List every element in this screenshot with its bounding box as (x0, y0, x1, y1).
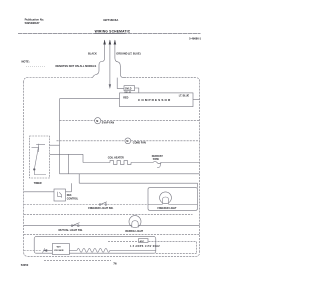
wire defrost control row (24, 191, 54, 193)
wire hot feed to compressor (60, 98, 120, 100)
svg-text:GROUND (LT. BLUE): GROUND (LT. BLUE) (116, 52, 140, 55)
timer switch arm (34, 144, 45, 170)
svg-text:FREEZER LIGHT: FREEZER LIGHT (158, 207, 178, 210)
wire freezer light row dashed (24, 204, 148, 206)
wire timer stub mid (50, 153, 83, 155)
coil heater zigzag resistor (110, 161, 131, 165)
cabinet outline right edge (199, 82, 201, 253)
wire long row y183 (79, 183, 197, 188)
svg-text:WIRING SCHEMATIC: WIRING SCHEMATIC (95, 30, 131, 34)
line cord plug arrow black (104, 40, 106, 45)
wire dashed stub left of plug (24, 250, 42, 252)
defrost thermostat curl (153, 161, 161, 167)
wire refrig lamp legs (130, 225, 141, 227)
defrost control switch symbol (57, 192, 61, 198)
wire overload drop from neutral (117, 78, 124, 89)
svg-text:GRT18C6A: GRT18C6A (103, 18, 119, 22)
timer internal wire (34, 170, 46, 174)
svg-text:M: M (96, 120, 98, 123)
svg-text:OVLD: OVLD (125, 89, 132, 91)
hot bus vertical (59, 99, 61, 174)
refrig lamp bulb (129, 216, 141, 228)
svg-text:M: M (126, 140, 128, 143)
wire cond fan row (57, 140, 200, 142)
wire timer stub to bus (50, 144, 60, 146)
cond fan motor circle (125, 138, 131, 144)
svg-text:REFRIG LIGHT: REFRIG LIGHT (125, 230, 143, 233)
svg-text:EVAP FAN: EVAP FAN (102, 122, 114, 125)
wire overload to box edge (135, 88, 139, 93)
svg-text:BLACK: BLACK (88, 52, 97, 55)
wire defrost control out (66, 191, 72, 193)
wire ground down (109, 45, 111, 85)
svg-text:NOTE:: NOTE: (22, 59, 30, 63)
svg-text:COND FAN: COND FAN (133, 142, 146, 145)
cabinet outline left edge (23, 82, 25, 253)
header rule (18, 33, 201, 35)
timer common dot (33, 168, 35, 170)
svg-text:COMPRESSOR: COMPRESSOR (138, 98, 171, 102)
wire through freezer lamp (148, 204, 197, 206)
refrig door switch (72, 223, 79, 226)
overload box (124, 86, 135, 91)
freezer lamp bulb (160, 192, 172, 204)
plug arrow symbol (43, 249, 47, 252)
svg-text:··········: ·········· (26, 65, 46, 68)
svg-text:DEF.: DEF. (67, 195, 72, 197)
wire dashed bottom arrow row (44, 260, 111, 262)
svg-text:DENOTES NOT ON ALL MODELS: DENOTES NOT ON ALL MODELS (56, 64, 97, 68)
svg-text:RED: RED (123, 97, 128, 100)
ice maker enclosure (34, 237, 156, 254)
wire defrost heater row left (83, 162, 110, 164)
compressor box (120, 93, 194, 107)
water valve box (52, 244, 69, 255)
cabinet outline top-left segment (24, 78, 93, 82)
wire evap fan row (60, 120, 200, 122)
wire black cord down with S-curve to cabinet top (93, 45, 105, 78)
drain heater coil (69, 248, 155, 252)
svg-text:1.5 AMPS 115V 60HZ: 1.5 AMPS 115V 60HZ (130, 245, 160, 248)
svg-text:5-49686-1: 5-49686-1 (189, 36, 201, 40)
svg-text:ADC: ADC (140, 240, 145, 243)
wire compressor to right bus (193, 99, 200, 101)
svg-text:76: 76 (113, 262, 117, 266)
svg-text:W/V: W/V (57, 247, 62, 249)
wire plug to water valve (47, 250, 52, 252)
freezer light switch (100, 202, 107, 205)
svg-text:MUTUAL LIGHT SW.: MUTUAL LIGHT SW. (59, 229, 83, 232)
defrost control box (54, 189, 66, 201)
wire defrost branch riser (71, 183, 73, 192)
wire icemaker feed row dashed (24, 233, 200, 235)
line cord plug arrow ground (109, 40, 111, 45)
wire drop to lower row (68, 154, 70, 174)
ground arrow down (109, 84, 111, 89)
freezer light enclosure (148, 188, 197, 211)
wire heater row right (161, 162, 200, 164)
wire neutral cord S-curve right (115, 45, 126, 78)
small marker box (139, 239, 149, 243)
wire drop x79 (78, 174, 80, 183)
wire mid dashed row (24, 213, 193, 215)
defrost timer box (30, 136, 50, 178)
line cord plug arrow neutral (114, 40, 116, 45)
svg-text:CONTROL: CONTROL (67, 199, 79, 201)
wire adc row inside enclosure (108, 240, 139, 242)
svg-text:TIMER: TIMER (34, 182, 42, 185)
svg-text:500W: 500W (153, 159, 160, 161)
wire long row y174 (60, 173, 200, 175)
icemaker annex dashed box (149, 242, 197, 254)
wire drop to heater row (82, 154, 84, 162)
cabinet outline bottom edge (24, 252, 200, 256)
svg-text:COIL HEATER: COIL HEATER (108, 157, 124, 160)
wire heater row mid (131, 162, 153, 164)
svg-text:5995396187: 5995396187 (25, 21, 40, 25)
svg-text:FREEZER LIGHT SW.: FREEZER LIGHT SW. (88, 207, 113, 210)
svg-text:53050: 53050 (21, 263, 29, 267)
svg-text:ICE MKR: ICE MKR (54, 250, 64, 252)
wire refrig light row (24, 225, 200, 227)
svg-text:DEFROST: DEFROST (152, 156, 164, 158)
evap fan motor circle (95, 118, 101, 124)
cabinet outline top-right segment (126, 78, 200, 82)
svg-text:LT. BLUE: LT. BLUE (179, 95, 190, 98)
